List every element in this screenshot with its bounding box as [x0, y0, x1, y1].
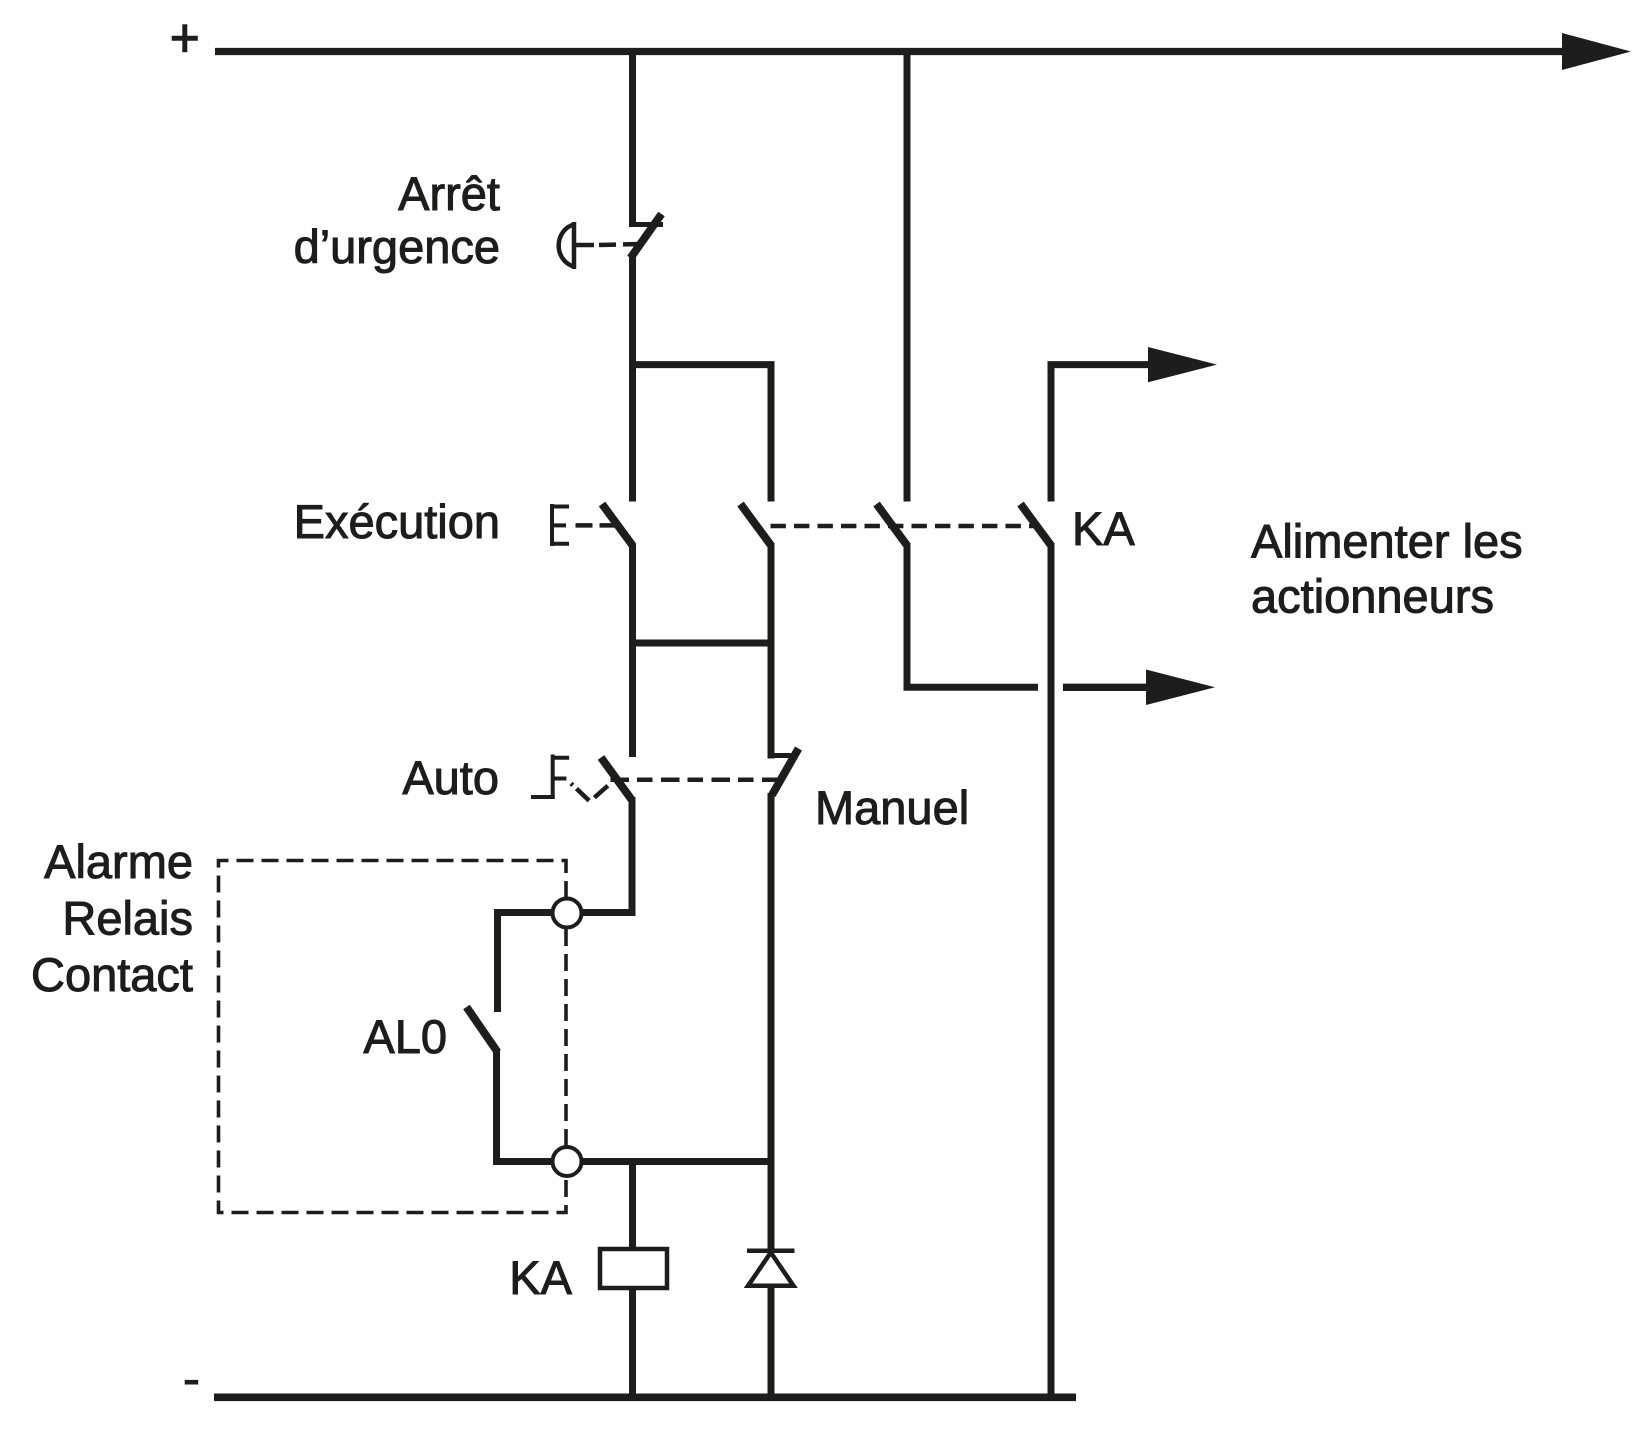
svg-text:Alimenter les: Alimenter les	[1251, 515, 1523, 568]
contact: Auto (NO selector position)	[601, 758, 632, 800]
node: lower output arrowhead	[1146, 670, 1215, 706]
wire: down to AL0 contact	[494, 909, 501, 1012]
wire: parallel branch top (to latch contact)	[633, 365, 772, 502]
contact: Arrêt d'urgence (NC emergency stop)	[630, 214, 663, 258]
svg-text:Arrêt: Arrêt	[398, 167, 500, 220]
contact: AL0 (NO alarm relay contact)	[467, 1007, 498, 1052]
wire: bottom negative rail	[214, 1394, 1076, 1402]
svg-text:Manuel: Manuel	[815, 781, 969, 834]
wire: Auto contact to alarm box terminal	[494, 797, 632, 913]
dashed enclosure: Alarme Relais Contact box	[219, 861, 567, 1213]
node + (positive supply label)	[172, 24, 198, 52]
wire: right KA contact down to negative rail	[1048, 544, 1055, 1399]
contact: KA latching contact (NO)	[741, 504, 772, 546]
wire: diode to negative rail	[768, 1286, 775, 1399]
svg-text:AL0: AL0	[363, 1010, 447, 1063]
pushbutton actuator (E) of Exécution	[551, 504, 617, 546]
wire: junction down to KA coil	[629, 1158, 636, 1250]
svg-text:Relais: Relais	[62, 892, 193, 945]
node: upper output arrowhead	[1148, 347, 1217, 382]
diode: freewheel diode	[747, 1251, 795, 1286]
wire: bottom horizontal from alarm box to diode branch	[493, 1158, 771, 1165]
wire: top positive rail	[215, 48, 1570, 55]
contact: Exécution (NO pushbutton contact)	[602, 504, 633, 546]
node - (negative supply label)	[185, 1380, 199, 1385]
wire: lower join of parallel branch	[633, 640, 772, 647]
svg-text:actionneurs: actionneurs	[1251, 570, 1494, 623]
wire: below Exécution contact down to lower join	[629, 544, 636, 757]
wire: Manuel contact down to diode branch	[768, 793, 775, 1251]
wire: from rail down to KA power contact	[904, 48, 911, 502]
coil KA	[600, 1249, 667, 1288]
pushbutton actuator (mushroom head) of Arrêt d'urgence	[559, 222, 640, 269]
wire: AL0 to bottom horizontal	[493, 1050, 500, 1162]
wire: KA coil to negative rail	[629, 1288, 636, 1399]
wire: below left KA contact, to lower output arrow	[907, 544, 1038, 687]
contact: Manuel (mirrored with end stop tick)	[768, 749, 799, 796]
svg-text:Contact: Contact	[31, 948, 193, 1001]
mechanical link dashes: KA contacts	[771, 524, 1038, 529]
node: lower alarm terminal circle	[553, 1147, 582, 1176]
svg-text:Auto: Auto	[402, 751, 499, 804]
svg-text:KA: KA	[509, 1251, 572, 1304]
wire: upper output arrow shaft and down to right KA contact	[1051, 365, 1152, 502]
svg-text:d’urgence: d’urgence	[294, 220, 500, 273]
node: arrowhead of positive rail	[1562, 33, 1631, 70]
contact: KA power contact left (NO)	[877, 504, 908, 546]
node: upper alarm terminal circle	[553, 899, 582, 928]
svg-text:Exécution: Exécution	[294, 495, 500, 548]
wire: emergency stop to Exécution contact, through branch node	[629, 255, 636, 502]
wire: lower output arrow shaft	[1063, 684, 1150, 691]
svg-text:Alarme: Alarme	[44, 835, 193, 888]
wire: from rail down to emergency stop contact	[629, 48, 636, 227]
contact: KA power contact right (NO)	[1021, 504, 1052, 546]
selector actuator (F) of Auto/Manuel	[531, 755, 779, 802]
svg-text:KA: KA	[1072, 502, 1135, 555]
wire: below latch contact down to lower join	[768, 544, 775, 759]
